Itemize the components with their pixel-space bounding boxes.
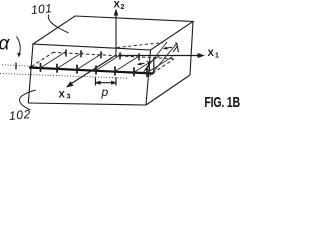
dotted reference line upper xyxy=(2,65,37,67)
svg-text:X: X xyxy=(59,90,66,101)
svg-text:101: 101 xyxy=(30,1,52,17)
grating mid-plane left edge (dashed) xyxy=(32,53,54,67)
svg-text:1: 1 xyxy=(215,53,219,60)
leader line 101 xyxy=(48,15,68,34)
slab front right edge xyxy=(146,50,151,105)
grating mid-plane back edge (dashed) xyxy=(53,52,175,59)
slab left front edge xyxy=(28,44,33,103)
axis X3 line xyxy=(69,56,115,85)
small tick on reference line xyxy=(15,63,17,70)
leader line 102 xyxy=(20,90,36,110)
axis X1 arrowhead xyxy=(198,53,206,58)
grating back tick marks xyxy=(65,49,67,56)
axis X2 line xyxy=(115,13,117,57)
slab top face outline xyxy=(33,16,193,50)
dimension p extension bars xyxy=(95,78,97,86)
alpha angle arc xyxy=(17,37,21,55)
grating mid-plane front edge xyxy=(29,68,153,74)
slab bottom front edge xyxy=(28,103,146,105)
svg-text:3: 3 xyxy=(67,94,71,101)
grating tall tick right xyxy=(153,58,155,75)
svg-text:FIG. 1B: FIG. 1B xyxy=(204,94,240,110)
svg-text:X: X xyxy=(114,0,121,11)
dashed line on top face xyxy=(117,43,163,48)
axis X3 arrowhead xyxy=(66,81,74,87)
svg-text:λ: λ xyxy=(172,40,179,55)
alpha arc arrowhead xyxy=(17,53,21,58)
svg-text:2: 2 xyxy=(121,4,125,11)
svg-text:α: α xyxy=(0,34,11,55)
grating front tick marks xyxy=(40,63,42,72)
svg-text:X: X xyxy=(208,48,215,59)
grating depth diagonals xyxy=(39,52,66,69)
dotted reference line lower xyxy=(0,74,128,79)
lambda arrow bottom xyxy=(138,63,145,64)
svg-text:λ: λ xyxy=(144,59,151,74)
dimension p double arrow xyxy=(96,82,116,84)
svg-text:p: p xyxy=(101,85,109,99)
grating mid-plane right edge (dashed) xyxy=(153,59,175,73)
axis X1 line xyxy=(118,55,199,57)
axis X2 arrowhead xyxy=(114,9,119,16)
tilted grating diagonal b xyxy=(150,43,177,76)
tilted grating diagonal a xyxy=(142,42,167,74)
slab bottom right edge xyxy=(146,75,190,105)
lambda arrow top xyxy=(164,47,172,48)
slab back right vertical edge xyxy=(190,22,193,76)
